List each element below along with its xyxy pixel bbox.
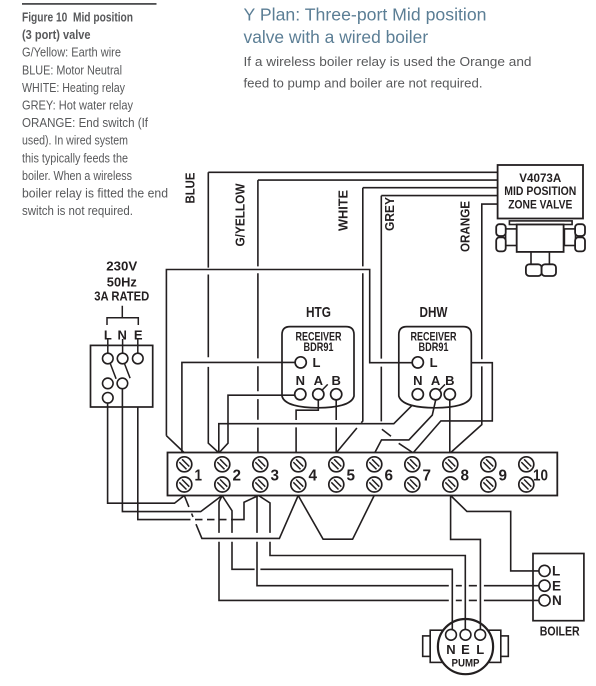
wire HTG L to terminal 1 [182,362,295,452]
valve body [517,225,564,252]
pump body circle [438,619,493,674]
wire terminal 1 to terminal 4 link [184,496,298,539]
terminal 8 screw slots [448,459,455,466]
switch pole contact right [117,378,128,389]
svg-text:Y Plan: Three-port Mid positio: Y Plan: Three-port Mid position [244,5,487,25]
HTG receiver box [282,327,354,408]
wire GREY horizontal to valve [381,195,497,197]
HTG N terminal [295,389,306,400]
svg-text:boiler relay is fitted the end: boiler relay is fitted the end [22,186,168,201]
svg-text:50Hz: 50Hz [107,274,137,289]
terminal strip [168,453,558,496]
svg-text:N: N [296,373,305,388]
terminal 4 screw slots [296,459,303,466]
svg-text:8: 8 [461,468,470,485]
svg-text:G/YELLOW: G/YELLOW [233,183,248,247]
svg-text:B: B [332,373,341,388]
svg-text:L: L [430,355,438,370]
wire supply L to terminal 1 [108,403,185,503]
DHW N terminal [412,389,423,400]
HTG L terminal [295,357,306,368]
svg-text:ZONE VALVE: ZONE VALVE [508,197,572,211]
wire BLUE riser down to terminal 2 [208,172,218,452]
boiler E terminal [539,580,550,591]
wire terminal 2 down to pump N [222,496,452,630]
svg-text:L: L [552,564,560,579]
wire WHITE horizontal to valve [363,187,498,189]
svg-text:5: 5 [347,468,356,485]
svg-text:E: E [552,578,561,593]
valve bottom port flange left [526,264,542,276]
svg-text:PUMP: PUMP [452,658,480,670]
svg-text:E: E [134,328,143,343]
supply bracket [107,306,138,325]
valve left pipe stub [506,229,517,246]
pump terminal L [475,629,486,640]
svg-text:N: N [413,373,422,388]
svg-text:BOILER: BOILER [540,624,580,639]
wire supply N to terminal 2 [122,389,222,512]
svg-text:HTG: HTG [306,304,331,321]
svg-text:3: 3 [271,468,280,485]
wire terminal 2 down to boiler N [219,496,539,601]
svg-text:N: N [118,328,127,343]
heading [244,5,487,48]
svg-text:valve with a wired boiler: valve with a wired boiler [244,27,429,47]
mains supply switch box [91,345,153,407]
pump terminal N [446,629,457,640]
wire supply E dashed part [183,519,236,521]
svg-text:L: L [313,355,321,370]
valve bottom stub left [530,252,532,264]
wire terminal 4 to terminal 6 link [298,496,374,540]
svg-text:V4073A: V4073A [519,171,561,185]
figure caption and legend text [22,10,168,219]
terminal 4 screws [291,457,306,472]
svg-text:B: B [445,373,454,388]
svg-text:WHITE: Heating relay: WHITE: Heating relay [22,80,125,95]
svg-text:A: A [431,373,441,388]
svg-text:4: 4 [309,468,318,485]
svg-text:used). In wired system: used). In wired system [22,133,128,148]
terminal 1 screw slots [182,459,189,466]
svg-text:WHITE: WHITE [335,190,350,231]
DHW A terminal [430,389,441,400]
svg-text:G/Yellow: Earth wire: G/Yellow: Earth wire [22,45,121,60]
svg-text:N: N [552,593,562,608]
terminal 6 screw slots [372,459,379,466]
svg-text:ORANGE: ORANGE [458,201,473,252]
svg-text:6: 6 [385,468,394,485]
valve bottom port flange right [542,264,556,276]
terminal 2 screws [215,457,230,472]
terminal 10 screw slots [524,459,531,466]
wire HTG A to terminal 4 [296,400,318,453]
svg-text:BLUE: Motor Neutral: BLUE: Motor Neutral [22,62,122,77]
valve mounting bar [509,221,572,225]
wire G/YELLOW horizontal to valve [258,179,498,181]
svg-text:E: E [461,642,470,657]
terminal 10 screws [519,457,534,472]
DHW receiver box [399,327,472,408]
wire G/YELLOW riser down to terminal 3 [257,180,259,452]
svg-text:9: 9 [499,468,508,485]
terminal 5 screws [329,457,344,472]
wire live loop: terminal 1 up, across, down to DHW L [166,270,412,436]
switch pole contact left [103,378,114,389]
wire terminal 8 down to pump L [451,496,481,630]
terminal 5 screw slots [334,459,341,466]
terminal 1 screws [177,457,192,472]
valve left pipe flange upper [496,224,506,236]
DHW B terminal [444,389,455,400]
svg-text:BDR91: BDR91 [304,342,334,354]
DHW L terminal [412,357,423,368]
svg-text:N: N [446,642,455,657]
svg-text:BDR91: BDR91 [419,342,449,354]
wire terminal 8 to boiler L [451,496,539,571]
supply L terminal [103,353,114,364]
svg-text:2: 2 [233,468,242,485]
valve bottom stub right [548,252,550,264]
svg-text:switch is not required.: switch is not required. [22,203,133,218]
svg-text:GREY: Hot water relay: GREY: Hot water relay [22,98,133,113]
svg-text:1: 1 [195,468,203,485]
wire DHW L link to terminal 7 [413,363,492,453]
terminal 6 screws [367,457,382,472]
terminal 8 screws [443,457,458,472]
supply E terminal [133,353,144,364]
wire supply E solid part [138,407,183,519]
wire terminal 3 down to pump E [259,496,466,630]
svg-text:this typically feeds the: this typically feeds the [22,150,128,165]
wire GREY riser down + diagonal to terminal 7 [381,196,412,453]
boiler box [533,554,584,621]
svg-text:10: 10 [533,468,548,485]
wire neutral bus terminal 2 to DHW N [219,405,413,452]
svg-text:BLUE: BLUE [182,172,197,203]
valve right pipe stub [564,229,575,246]
svg-text:boiler. When a wireless: boiler. When a wireless [22,168,132,183]
zone valve box V4073A [498,165,583,219]
svg-text:Figure 10 Mid position: Figure 10 Mid position [22,10,133,25]
svg-text:feed to pump and boiler are no: feed to pump and boiler are not required… [244,75,483,90]
HTG B terminal [331,389,342,400]
wire HTG N to terminal 2 [219,395,294,452]
terminal 9 screws [481,457,496,472]
supply N terminal [117,353,128,364]
terminal 2 screw slots [220,459,227,466]
svg-text:7: 7 [423,468,432,485]
HTG A terminal [313,389,324,400]
supply label drop wires [108,339,138,353]
svg-text:3A RATED: 3A RATED [94,289,149,304]
valve right pipe flange lower [575,237,585,251]
terminal 7 screws [405,457,420,472]
switch blades [110,363,130,378]
wire live loop diagonal into terminal 1 [166,436,184,453]
sub heading [244,54,532,90]
boiler N terminal [539,595,550,606]
wire DHW A to terminal 6 [375,400,436,452]
svg-text:L: L [104,328,112,343]
svg-text:If a wireless boiler relay is: If a wireless boiler relay is used the O… [244,54,532,69]
terminal 7 screw slots [410,459,417,466]
svg-text:A: A [314,373,324,388]
terminal numbers [195,468,549,485]
svg-text:L: L [476,642,484,657]
valve left pipe flange lower [496,237,506,251]
wire earth corner up to terminal 3 [236,496,259,520]
switch output contact [103,393,114,404]
terminal 9 screw slots [486,459,493,466]
screw slots [179,459,531,489]
svg-text:GREY: GREY [382,197,397,231]
svg-text:230V: 230V [106,259,137,274]
wire HTG B to terminal 5 [335,400,337,453]
svg-text:MID POSITION: MID POSITION [504,184,576,198]
valve right pipe flange upper [575,224,585,236]
boiler L terminal [539,565,550,576]
wire WHITE riser down + diagonal to terminal 5 [337,188,363,453]
DHW A switch tick [439,384,445,390]
terminal 3 screws [253,457,268,472]
svg-text:ORANGE: End switch (If: ORANGE: End switch (If [22,115,148,130]
wire terminal 3 down to boiler E [257,496,539,586]
svg-text:(3 port) valve: (3 port) valve [22,27,91,42]
wire ORANGE stub from valve + riser down + diagonal to terminal 8 [451,204,498,452]
wire DHW B to terminal 8 [449,400,451,452]
pump flanges [423,636,431,657]
wire BLUE horizontal to valve [208,171,497,173]
figure caption rule [22,3,157,5]
HTG A switch tick [322,384,328,390]
pump terminal E [460,629,471,640]
svg-text:DHW: DHW [420,304,449,321]
terminal 3 screw slots [258,459,265,466]
